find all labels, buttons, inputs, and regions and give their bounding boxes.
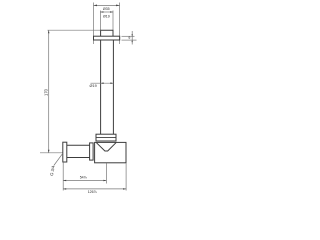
bottom extension line left (62, 162, 64, 190)
height dim 170: top arrow (48, 30, 50, 33)
side pipe bottom wall (67, 157, 90, 159)
svg-text:Ø19: Ø19 (90, 84, 97, 88)
side port flange (63, 142, 67, 162)
bottom extension line right (125, 163, 127, 191)
bottom dim 1: line (63, 180, 106, 182)
ceiling hub (101, 30, 113, 36)
vertical pipe right wall (112, 40, 114, 134)
mid pipe dia dim: right arrow (110, 82, 113, 84)
bottom dim 2: line (63, 188, 126, 190)
bottom extension line middle (105, 163, 107, 184)
vertical pipe left wall (100, 40, 102, 134)
pipe collar inner line (96, 136, 116, 138)
ceiling plate (escutcheon) (94, 36, 120, 40)
plate thickness dim: top leader (122, 35, 135, 37)
v notch chamfer (96, 143, 116, 151)
height dim 170: vertical dim line (48, 30, 50, 153)
bottom dim 1: right arrow (103, 180, 106, 182)
bottom dim 2: left arrow (63, 188, 66, 190)
dimension pipe dia top: dim line (100, 11, 113, 13)
side pipe top wall (67, 144, 90, 146)
dimension top width: extension line right (119, 3, 121, 45)
dimension top width: dim line (94, 4, 120, 6)
mid pipe dia dim: left arrow (101, 82, 104, 84)
plate thickness dim: vertical line (131, 31, 133, 45)
mid pipe dia dim: leader line (91, 82, 114, 84)
dimension pipe dia top: right arrow (110, 11, 113, 13)
svg-text:126⅞: 126⅞ (88, 190, 97, 194)
plate thickness dim: upper arrow (132, 34, 133, 36)
dimension pipe dia top: extension right (112, 11, 114, 31)
dimension pipe dia top: extension left (99, 11, 101, 31)
pipe collar (96, 134, 116, 141)
connector ring (90, 143, 94, 160)
dimension top width: extension line left (93, 3, 95, 45)
svg-text:170: 170 (43, 88, 48, 96)
svg-text:Ø19: Ø19 (103, 14, 110, 18)
plate thickness dim: lower arrow (132, 40, 133, 42)
valve body (95, 142, 126, 162)
dimension pipe dia top: left arrow (100, 11, 103, 13)
G 3/4 leader line (54, 153, 63, 165)
height dim 170: top extension line (48, 29, 101, 31)
svg-text:54⅞: 54⅞ (80, 176, 87, 180)
svg-text:9: 9 (128, 36, 130, 40)
height dim 170: bottom arrow (48, 150, 50, 153)
plate thickness dim: bottom leader (122, 39, 137, 41)
dimension top width: right arrow (116, 5, 120, 7)
bottom dim 1: left arrow (63, 180, 66, 182)
svg-text:Ø35: Ø35 (103, 7, 110, 11)
bottom dim 2: right arrow (123, 188, 126, 190)
height dim 170: bottom extension line (40, 152, 63, 154)
dimension top width: left arrow (94, 5, 98, 7)
